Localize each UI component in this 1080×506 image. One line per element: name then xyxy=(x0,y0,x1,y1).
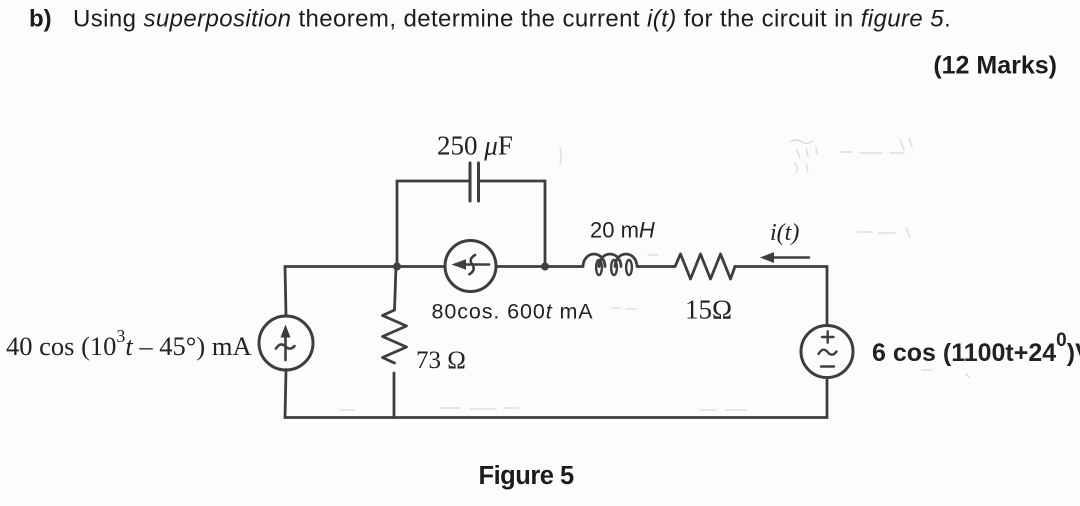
svg-text:i(t): i(t) xyxy=(770,220,799,246)
svg-text:20 mH: 20 mH xyxy=(590,218,655,243)
svg-text:40 cos (103t – 45°) mA: 40 cos (103t – 45°) mA xyxy=(6,326,252,361)
svg-text:b): b) xyxy=(29,6,52,33)
svg-text:Using superposition theorem, d: Using superposition theorem, determine t… xyxy=(73,6,951,33)
svg-text:250 μF: 250 μF xyxy=(437,131,513,161)
svg-text:80cos. 600t mA: 80cos. 600t mA xyxy=(432,300,594,324)
svg-text:73 Ω: 73 Ω xyxy=(416,347,466,374)
svg-text:15Ω: 15Ω xyxy=(685,295,732,325)
svg-text:Figure 5: Figure 5 xyxy=(479,462,575,490)
svg-text:(12 Marks): (12 Marks) xyxy=(933,52,1057,80)
